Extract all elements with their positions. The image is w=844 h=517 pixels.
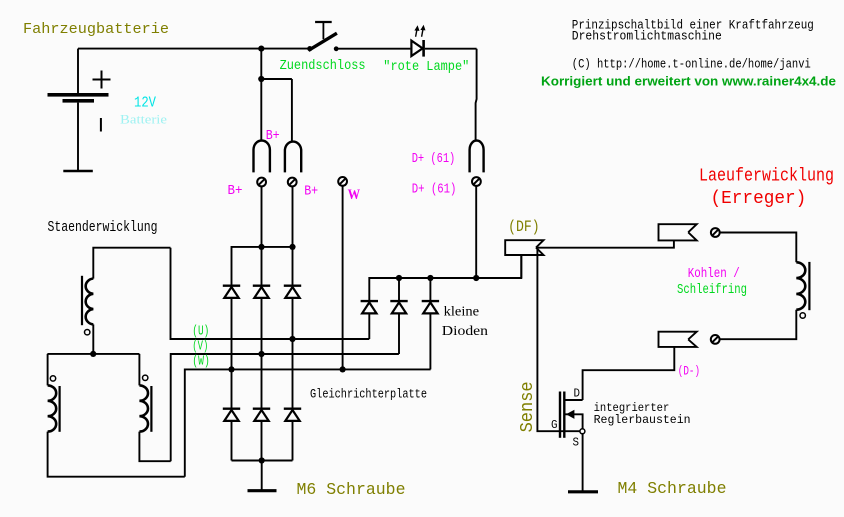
svg-text:Schleifring: Schleifring [677, 282, 747, 298]
connector flag brush top [659, 224, 697, 240]
LED cathode bar [422, 40, 425, 57]
svg-text:Drehstromlichtmaschine: Drehstromlichtmaschine [572, 30, 722, 44]
switch right contact [334, 46, 339, 51]
wire switch to lamp [338, 48, 410, 50]
transistor Q1 channel bar [563, 392, 565, 438]
svg-text:(Erreger): (Erreger) [711, 189, 807, 209]
node lower rail dot [259, 457, 265, 463]
wire top rail battery to switch [78, 48, 308, 50]
diode D9 small [422, 301, 439, 313]
ground M6 [248, 489, 277, 492]
wire star to right coil [138, 354, 140, 386]
rotor coil bumps [796, 262, 805, 309]
transistor Q1 substrate arrowhead [566, 410, 574, 419]
diode D5 lower [253, 409, 270, 421]
wire star to left coil [47, 354, 49, 386]
coil bumps right [139, 385, 148, 431]
battery short plate [63, 99, 95, 103]
diode D2 upper [253, 286, 270, 298]
wire U phase line [171, 248, 370, 339]
coil bumps left [48, 385, 57, 431]
node star point [90, 351, 96, 357]
svg-text:B+: B+ [228, 183, 243, 199]
svg-text:M4 Schraube: M4 Schraube [618, 480, 727, 499]
node junction branch [258, 76, 264, 82]
connector fork B+ right [285, 142, 301, 173]
wire rail2 bottom [261, 421, 263, 461]
transistor Q1 integrierter Reglerbaustein (MOSFET) [560, 392, 585, 438]
node U phase dot [289, 336, 295, 342]
wire W phase line [185, 369, 431, 476]
wire source to M4 ground [582, 434, 584, 491]
svg-text:Kohlen /: Kohlen / [688, 266, 740, 282]
wire brush top to rotor [720, 233, 796, 263]
screw terminal brush top [711, 228, 720, 237]
svg-text:G: G [551, 419, 558, 432]
svg-text:Zuendschloss: Zuendschloss [280, 58, 366, 74]
wire small-diode rail [369, 255, 521, 300]
coil terminal circle U [85, 330, 90, 335]
node W phase dot rail [228, 366, 234, 372]
diode D3 upper [284, 286, 301, 298]
wire junction down to B+ fork [260, 49, 262, 141]
wire battery negative down [77, 103, 79, 171]
wire V phase line [171, 354, 399, 461]
node V phase dot [258, 351, 264, 357]
svg-text:12V: 12V [134, 95, 156, 112]
svg-text:(C) http://home.t-online.de/ho: (C) http://home.t-online.de/home/janvi [572, 57, 811, 71]
wire rail3 mid [292, 298, 294, 408]
wire rail1 bottom [231, 421, 233, 461]
coil terminal circle left [50, 376, 55, 381]
wire D- flag to regulator drain [583, 347, 675, 400]
screw terminal B+ right [288, 178, 297, 187]
wire small D7 anode to U [368, 313, 370, 339]
svg-text:B+: B+ [266, 128, 280, 144]
svg-text:S: S [573, 436, 580, 449]
node small rail dot D8 [396, 275, 402, 281]
coil core bar U [81, 276, 83, 325]
transistor Q1 drain tap [564, 399, 582, 401]
coil core bar right [150, 386, 152, 432]
svg-text:Gleichrichterplatte: Gleichrichterplatte [310, 386, 427, 401]
LED arrow 1 [416, 28, 418, 37]
wire V coil to riser [139, 432, 170, 462]
svg-text:Korrigiert und erweitert von w: Korrigiert und erweitert von www.rainer4… [541, 74, 836, 89]
svg-text:"rote Lampe": "rote Lampe" [383, 59, 469, 75]
wire B+ right screw down [292, 186, 294, 247]
wire B+ bus [232, 247, 293, 285]
screw terminal brush bottom [711, 335, 720, 344]
svg-text:M6 Schraube: M6 Schraube [297, 481, 406, 500]
diode D8 small [390, 301, 407, 313]
wire lower rectifier rail [232, 460, 293, 462]
wire small D9 top [429, 278, 431, 300]
wire rail3 bottom [292, 421, 294, 461]
svg-text:(D-): (D-) [678, 364, 700, 378]
diode D4 lower [223, 409, 240, 421]
LED triangle [411, 41, 422, 56]
svg-text:Dioden: Dioden [442, 323, 488, 338]
coil core bar left [58, 386, 60, 432]
node bus dot right [289, 244, 295, 250]
battery plus sign [93, 71, 111, 89]
wire lamp to corner [425, 48, 477, 50]
wire DF to brush [537, 240, 674, 247]
wire rail2 top [261, 247, 263, 285]
LED arrow 2 [422, 28, 424, 37]
node W phase dot screw [340, 366, 346, 372]
svg-text:B+: B+ [304, 183, 318, 199]
svg-text:D+ (61): D+ (61) [412, 151, 456, 167]
switch S1 Zuendschloss [307, 22, 338, 51]
wire to M6 ground [261, 461, 263, 490]
svg-text:Fahrzeugbatterie: Fahrzeugbatterie [23, 21, 169, 38]
wire branch right [261, 78, 292, 80]
node bus dot left [258, 244, 264, 250]
node small rail dot D+ [473, 275, 479, 281]
diode D6 lower [284, 409, 301, 421]
switch blade [308, 33, 337, 50]
wire small D9 anode to W [429, 313, 431, 369]
rotor winding Laeuferwicklung [720, 262, 809, 339]
wire W coil to bottom rail [48, 432, 185, 477]
svg-text:D: D [574, 387, 581, 400]
svg-text:Staenderwicklung: Staenderwicklung [48, 220, 158, 236]
rotor core bar [808, 262, 810, 310]
connector flag D- [659, 332, 697, 347]
transistor Q1 substrate arrow line [565, 414, 582, 429]
wire rail3 top [292, 247, 294, 285]
wire Sense drop [537, 248, 580, 431]
screw terminal D+ [472, 177, 481, 186]
battery negative end bar [63, 170, 93, 173]
battery long plate [48, 93, 109, 97]
transistor Q1 gate bar [559, 392, 561, 438]
svg-text:Batterie: Batterie [120, 112, 167, 127]
wire W screw down [342, 186, 344, 370]
wire rail1 mid [231, 298, 233, 408]
transistor Q1 source circle [580, 429, 585, 434]
stator winding U (top coil) [82, 276, 93, 354]
wire D+ screw down [475, 186, 477, 278]
svg-text:kleine: kleine [444, 304, 480, 319]
svg-text:D+ (61): D+ (61) [412, 182, 457, 198]
coil terminal circle right [143, 375, 148, 380]
node small rail dot D9 [427, 275, 433, 281]
stator winding W (left coil) [48, 354, 60, 432]
diode D1 upper [223, 286, 240, 298]
svg-text:(DF): (DF) [508, 218, 539, 236]
screw terminal W [338, 177, 347, 186]
switch actuator bar [315, 21, 332, 23]
wire star rail [47, 353, 139, 355]
svg-text:Reglerbaustein: Reglerbaustein [594, 413, 691, 427]
rotor terminal circle [800, 313, 805, 318]
ground M4 [568, 490, 598, 493]
node junction top rail [258, 46, 264, 52]
wire rotor bottom [720, 310, 796, 340]
wire battery positive up [77, 49, 79, 93]
stator winding V (right coil) [139, 354, 151, 432]
connector fork D+ [470, 141, 484, 173]
wire small D8 top [398, 278, 400, 300]
wire DF flag tap down [520, 255, 522, 278]
switch left contact [307, 46, 312, 51]
switch actuator stem [322, 22, 324, 39]
wire rail2 mid [261, 298, 263, 408]
svg-text:Sense: Sense [518, 381, 538, 432]
svg-text:Laeuferwicklung: Laeuferwicklung [699, 167, 834, 187]
wire small D8 anode to V [398, 313, 400, 354]
wire U link top [93, 248, 170, 279]
wire B+ left screw down [261, 186, 263, 247]
battery B1 [48, 49, 111, 171]
connector fork B+ left [254, 141, 270, 173]
diode D7 small [361, 301, 378, 313]
coil bumps U [86, 279, 94, 325]
connector flag DF [505, 240, 543, 255]
svg-text:W: W [348, 187, 361, 203]
battery minus sign [100, 118, 102, 132]
wire corner down to D+ fork [476, 49, 477, 141]
wire coil U bottom [92, 324, 94, 354]
svg-text:(U): (U) [192, 325, 209, 340]
screw terminal B+ left [257, 178, 266, 187]
svg-text:(V): (V) [192, 340, 208, 355]
wire branch down to right B+ fork [291, 79, 293, 141]
LED rote Lampe [411, 25, 425, 57]
svg-text:(W): (W) [192, 355, 210, 370]
